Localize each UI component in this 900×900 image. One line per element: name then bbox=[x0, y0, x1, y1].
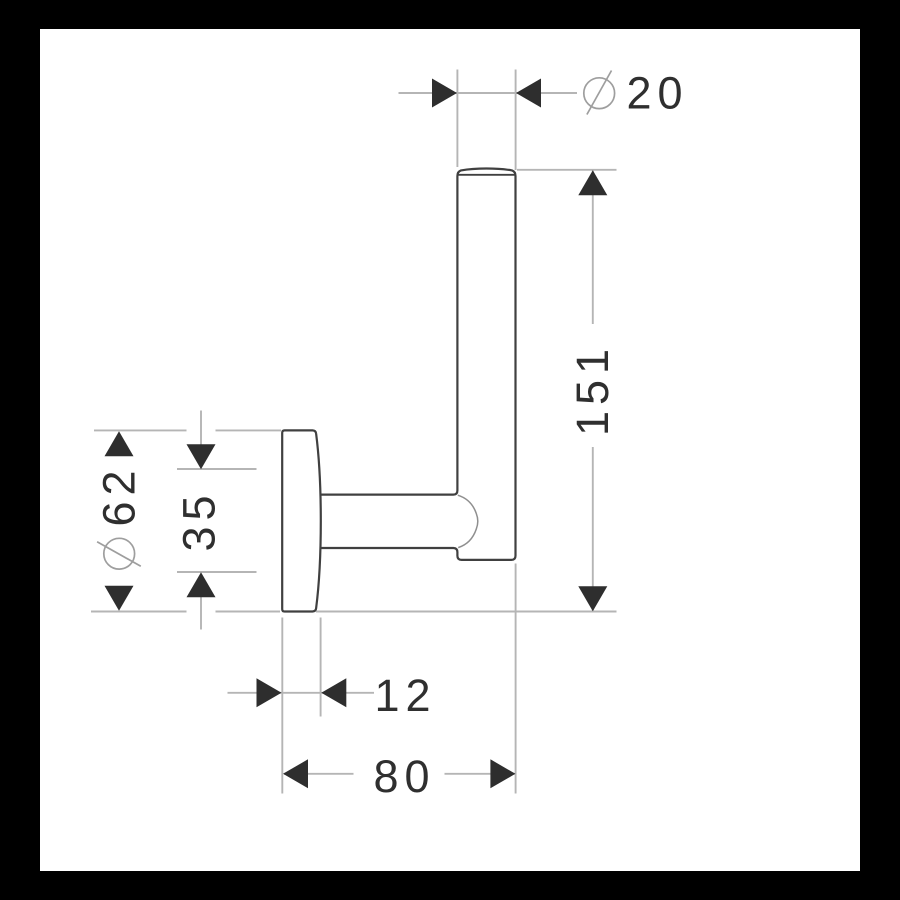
extension tick 35 top bbox=[177, 468, 257, 470]
extension line bottom right segment bbox=[316, 611, 617, 613]
extension line O62 top left segment bbox=[94, 429, 187, 431]
svg-text:35: 35 bbox=[174, 489, 225, 551]
arrow 80 right pointing right bbox=[490, 759, 515, 788]
dim line 35 bottom segment bbox=[200, 597, 202, 630]
extension line tube right edge down bbox=[515, 564, 517, 794]
diameter symbol for O20 bbox=[584, 71, 615, 115]
arrow 151 bottom pointing down bbox=[578, 586, 607, 611]
product outline: tube and arm bbox=[321, 169, 516, 560]
arrow 80 left pointing left bbox=[283, 759, 308, 788]
extension line tube left edge bbox=[456, 70, 458, 168]
dim line 80 right segment bbox=[445, 773, 516, 775]
arrow 12 right pointing left bbox=[321, 678, 346, 707]
tube cap chord line bbox=[458, 174, 514, 176]
arrow 151 top pointing up bbox=[578, 170, 607, 195]
dim line 12 horizontal bbox=[228, 692, 375, 694]
diameter symbol for O62 (rotated) bbox=[97, 538, 141, 569]
arrow O20 left pointing right bbox=[432, 79, 457, 108]
dim line O20 horizontal bbox=[399, 92, 578, 94]
arrow 35 top pointing down bbox=[187, 444, 216, 469]
arrow O62 bottom pointing down bbox=[105, 586, 134, 611]
extension line plate left edge down bbox=[281, 618, 283, 794]
dim line 35 top segment bbox=[200, 411, 202, 446]
dim line 80 left segment bbox=[284, 773, 354, 775]
wall plate bbox=[282, 430, 321, 611]
svg-text:80: 80 bbox=[373, 751, 435, 802]
arrow O20 right pointing left bbox=[516, 79, 541, 108]
extension line bottom left segment bbox=[91, 611, 187, 613]
svg-text:151: 151 bbox=[567, 343, 618, 436]
dimension + extension lines (light gray) bbox=[91, 70, 617, 794]
svg-text:20: 20 bbox=[626, 68, 688, 119]
svg-text:62: 62 bbox=[94, 464, 145, 526]
arrow 12 left pointing right bbox=[257, 678, 282, 707]
arrow O62 top pointing up bbox=[105, 431, 134, 456]
extension tick 35 bottom bbox=[177, 571, 257, 573]
extension line O62 top right segment bbox=[216, 429, 282, 431]
extension line tube right edge bbox=[515, 70, 517, 171]
arm rounded end (hidden contour) bbox=[458, 495, 478, 547]
dim line 151 lower segment bbox=[592, 447, 594, 611]
svg-text:12: 12 bbox=[374, 670, 436, 721]
dim line 151 upper segment bbox=[592, 170, 594, 324]
extension line bottom mid segment bbox=[216, 611, 281, 613]
arrowheads (dark) bbox=[105, 79, 608, 789]
arrow 35 bottom pointing up bbox=[187, 572, 216, 597]
extension line 151 top bbox=[517, 169, 617, 171]
extension line plate right edge down bbox=[320, 618, 322, 717]
